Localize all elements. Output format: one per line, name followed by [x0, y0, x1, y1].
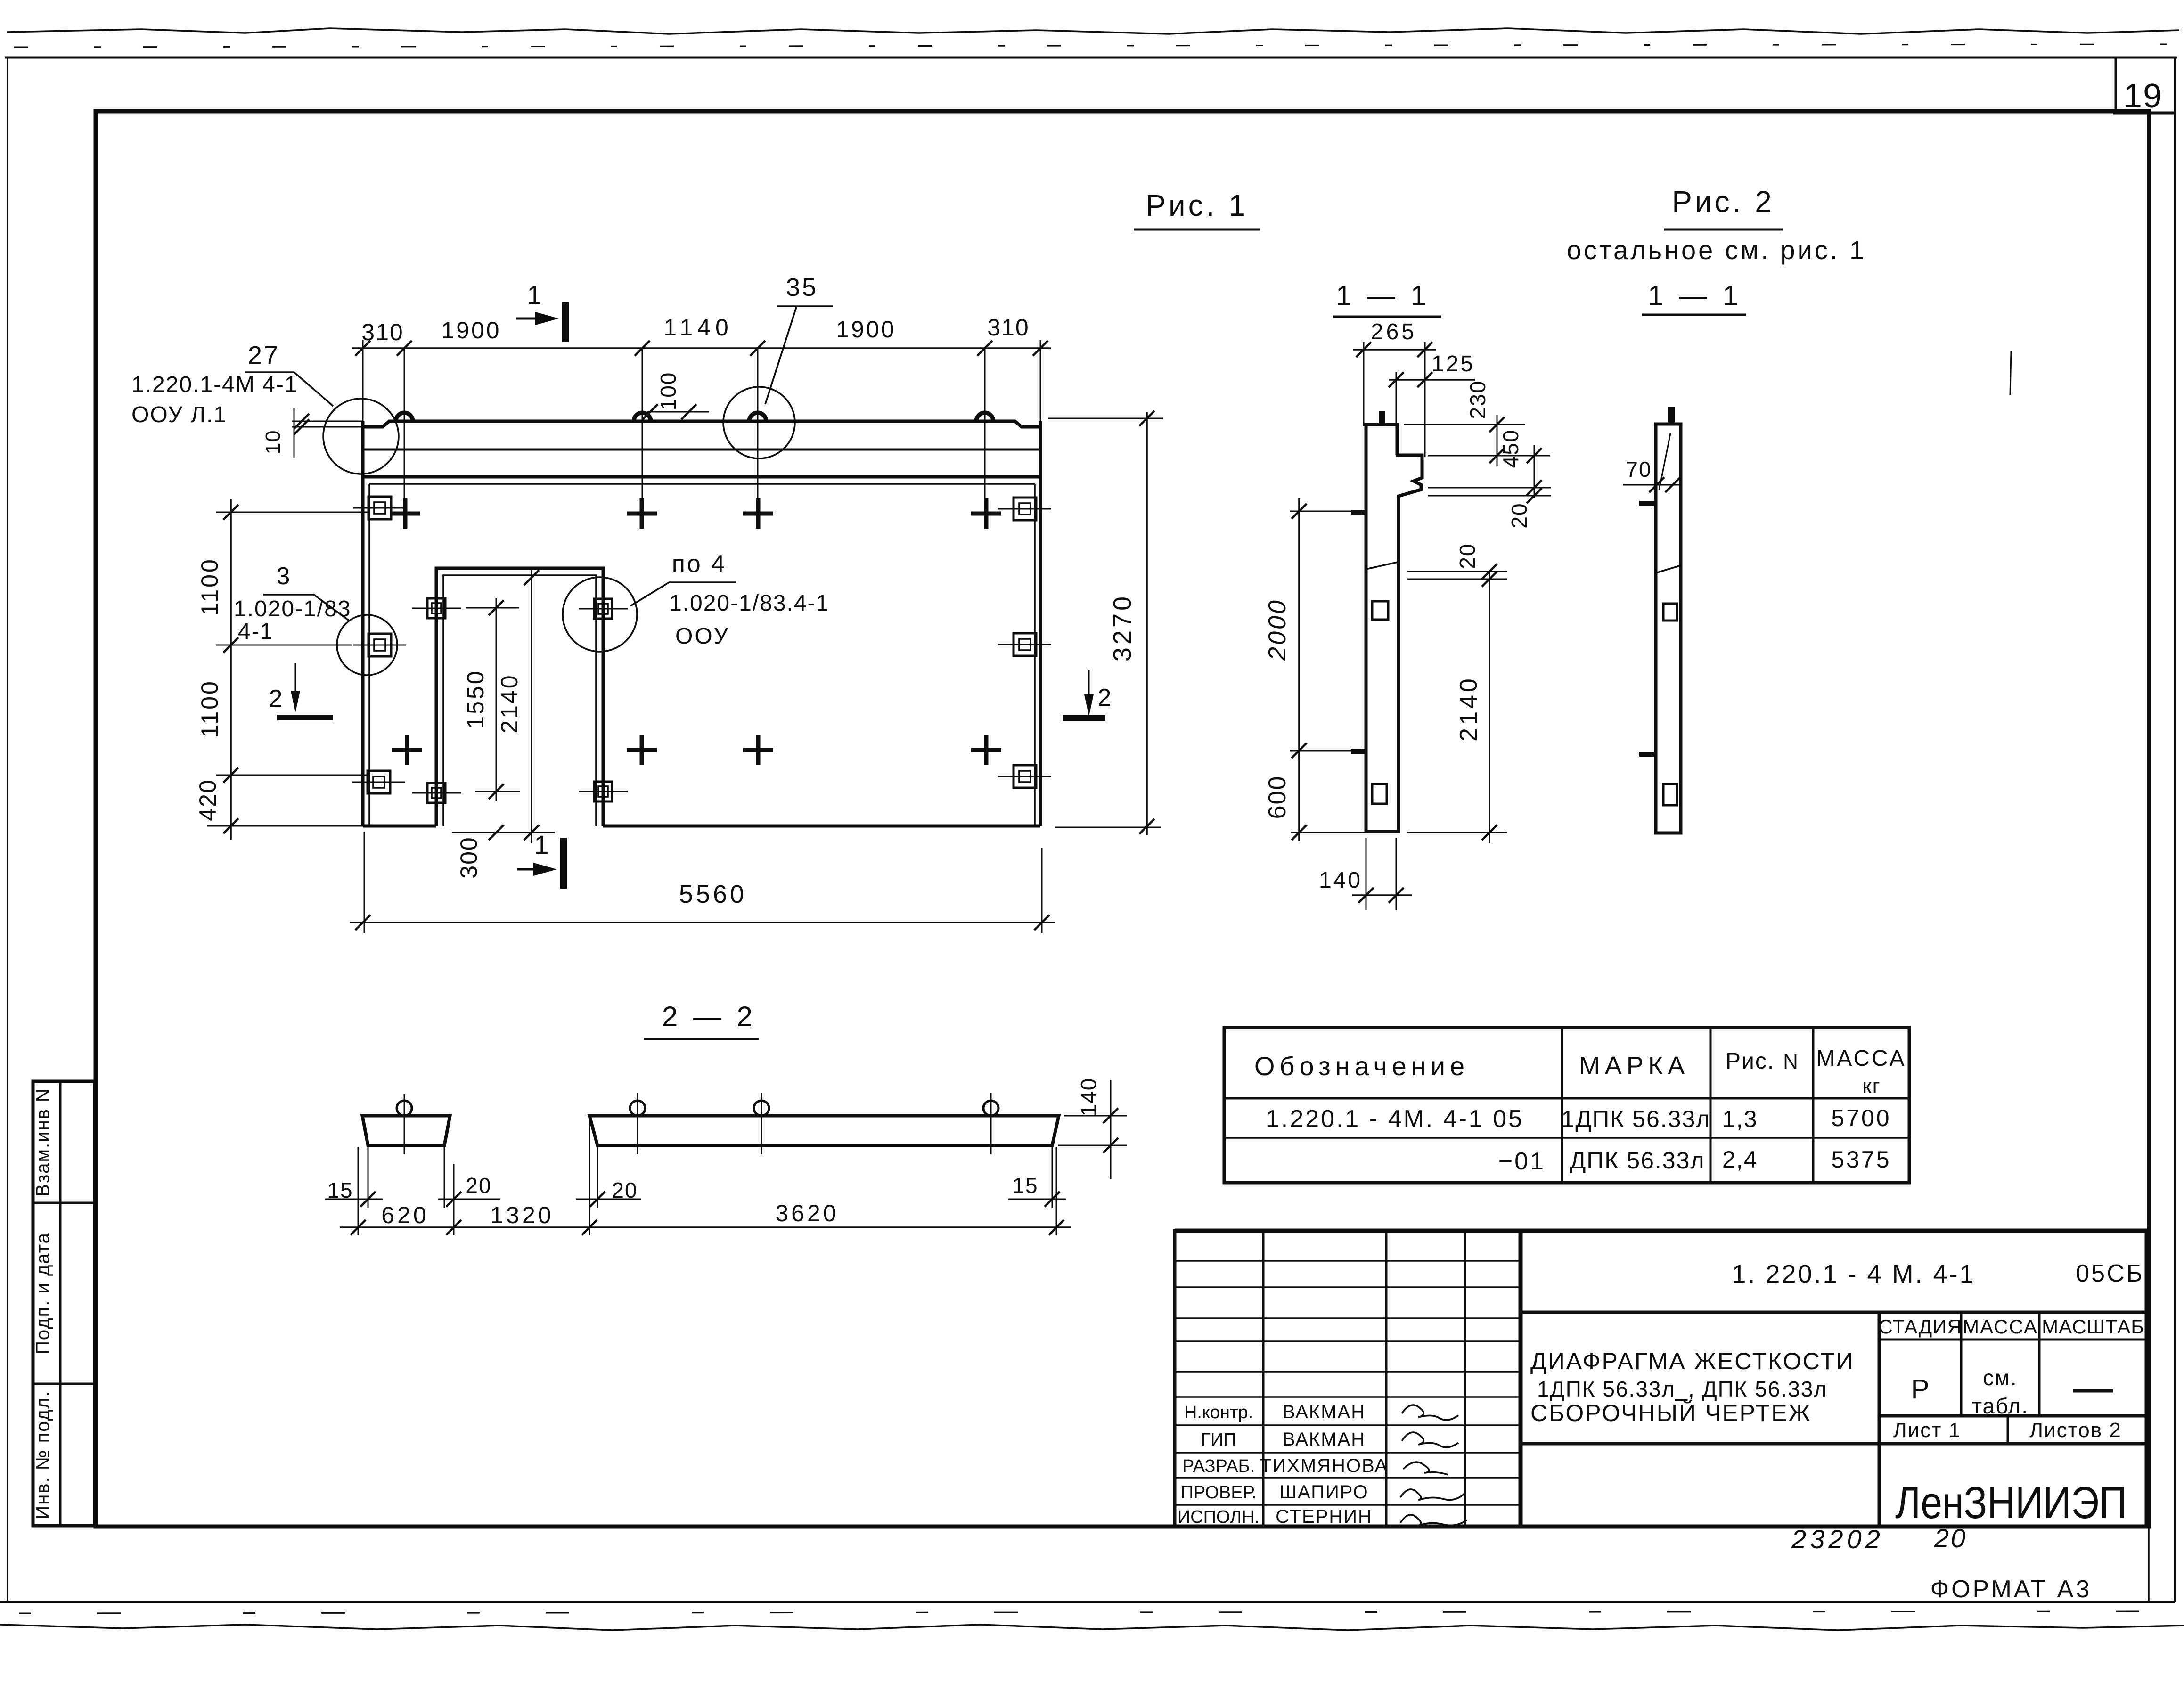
- centerline loop3: [757, 348, 759, 527]
- svg-text:1 — 1: 1 — 1: [1648, 280, 1742, 311]
- svg-text:620: 620: [381, 1202, 429, 1228]
- centerline loop4: [984, 348, 986, 527]
- centerline loop2: [642, 348, 643, 527]
- door dim 2140 line: [531, 570, 532, 843]
- grid hline 3136: [1175, 1477, 1521, 1479]
- title block left grid: [1175, 1231, 1521, 1527]
- callout 35 leader: [765, 307, 796, 404]
- section mark 2 right: arrow line: [1088, 670, 1090, 707]
- svg-text:3620: 3620: [775, 1200, 839, 1226]
- svg-text:2000: 2000: [1264, 598, 1291, 661]
- plus row1 b: [627, 512, 657, 516]
- svg-text:300: 300: [456, 836, 482, 878]
- dim 140: [1352, 894, 1412, 896]
- svg-text:1.220.1-4М 4-1: 1.220.1-4М 4-1: [131, 372, 298, 397]
- lifting loop 4: [976, 413, 993, 421]
- plus row2 b: [627, 748, 657, 752]
- svg-text:2: 2: [269, 685, 283, 712]
- dim 100 line: [647, 411, 709, 413]
- svg-text:ШАПИРО: ШАПИРО: [1279, 1482, 1368, 1503]
- svg-text:20: 20: [1934, 1523, 1967, 1553]
- door jamb anchor lower right: [594, 782, 612, 801]
- door opening outer contour: [436, 568, 603, 826]
- left dim line (1100/1100/420): [230, 499, 232, 840]
- grid hline 2676: [1175, 1260, 1521, 1262]
- designation cell line: [1521, 1311, 2147, 1314]
- svg-text:ЛенЗНИИЭП: ЛенЗНИИЭП: [1895, 1478, 2127, 1528]
- section pin stub: [1379, 411, 1385, 425]
- svg-text:ИСПОЛН.: ИСПОЛН.: [1178, 1507, 1260, 1527]
- svg-text:140: 140: [1076, 1078, 1101, 1117]
- main drawing frame: [96, 111, 2149, 1527]
- svg-text:РАЗРАБ.: РАЗРАБ.: [1182, 1456, 1255, 1476]
- panel bottom left segment: [363, 825, 436, 828]
- stadia massa masshtab header: [1879, 1339, 2147, 1341]
- section mark 1 bottom: arrow: [517, 868, 550, 871]
- plus row2 c: [743, 748, 773, 752]
- svg-text:ООУ Л.1: ООУ Л.1: [131, 402, 227, 427]
- dim 20 mid: [576, 1199, 641, 1200]
- svg-text:1: 1: [527, 280, 541, 310]
- bottom scattered dashes: [19, 1611, 2168, 1613]
- small collar loop: [397, 1101, 412, 1116]
- section mark 2 right: bar: [1063, 715, 1105, 721]
- svg-text:Листов 2: Листов 2: [2029, 1419, 2122, 1442]
- door jamb anchor upper left: [427, 598, 445, 618]
- dim 600: [1298, 751, 1300, 841]
- section2 stub upper: [1639, 501, 1656, 506]
- svg-text:см.: см.: [1983, 1365, 2017, 1390]
- grid hline 3083: [1175, 1452, 1521, 1454]
- signature 1: [1402, 1405, 1458, 1420]
- svg-text:1.020-1/83: 1.020-1/83: [234, 596, 352, 621]
- ext line y1645: [216, 775, 368, 776]
- bottom right verticals: [2148, 1527, 2150, 1602]
- ext verticals 2-2: [358, 1147, 359, 1235]
- section profile fig1: [1366, 425, 1422, 832]
- dim 140 collar: [1110, 1080, 1112, 1179]
- svg-text:23202: 23202: [1791, 1524, 1884, 1554]
- svg-text:ТИХМЯНОВА: ТИХМЯНОВА: [1260, 1455, 1388, 1476]
- door jamb anchor lower left: [427, 783, 445, 803]
- svg-text:5560: 5560: [679, 880, 747, 908]
- svg-text:1,3: 1,3: [1722, 1106, 1758, 1132]
- dim 20 top: [1527, 488, 1542, 503]
- ext line y1369: [216, 645, 352, 646]
- ext line right edge up: [1040, 340, 1041, 421]
- centerline loop1: [404, 348, 405, 527]
- right edge anchor 1: [1014, 498, 1036, 520]
- left edge anchor 3: [368, 771, 390, 793]
- svg-text:кг: кг: [1862, 1075, 1881, 1098]
- page number box: [2116, 57, 2175, 113]
- panel right edge: [1039, 421, 1042, 826]
- large collar loop 3: [983, 1101, 998, 1116]
- grid hline 3025: [1175, 1424, 1521, 1426]
- top dimension line: [352, 347, 1051, 349]
- svg-text:ВАКМАН: ВАКМАН: [1283, 1429, 1366, 1450]
- section2 stub lower: [1639, 752, 1656, 757]
- bottom dim 5560 line: [350, 922, 1055, 923]
- svg-text:Н.контр.: Н.контр.: [1184, 1403, 1253, 1422]
- dim 125: [1389, 379, 1475, 381]
- svg-text:1100: 1100: [196, 557, 223, 616]
- svg-text:420: 420: [195, 779, 221, 821]
- ext line y1087: [216, 512, 368, 513]
- svg-text:05СБ: 05СБ: [2076, 1260, 2144, 1287]
- signature 3: [1403, 1462, 1448, 1475]
- dim 230: [1497, 415, 1498, 466]
- svg-text:1320: 1320: [490, 1202, 554, 1228]
- svg-text:по 4: по 4: [672, 550, 727, 578]
- section mark 1 top: bar: [562, 302, 569, 342]
- svg-text:600: 600: [1264, 776, 1291, 819]
- svg-text:15: 15: [1012, 1173, 1038, 1198]
- svg-text:1ДПК 56.33л: 1ДПК 56.33л: [1562, 1106, 1711, 1132]
- right edge anchor 3: [1014, 765, 1036, 788]
- svg-text:2 — 2: 2 — 2: [662, 1001, 756, 1032]
- lifting loop 2: [634, 413, 651, 421]
- left edge anchor 2: [368, 634, 391, 656]
- dim 15 left: [325, 1199, 383, 1200]
- svg-text:остальное см. рис. 1: остальное см. рис. 1: [1567, 235, 1866, 265]
- tick left dim at 1645: [223, 768, 238, 783]
- panel inner contour left: [368, 484, 370, 825]
- door dim ext y1767: [452, 832, 555, 833]
- svg-text:265: 265: [1371, 319, 1417, 344]
- right dim 3270 line: [1146, 412, 1148, 835]
- ext right bottom corner: [1041, 848, 1043, 933]
- signature 2: [1402, 1432, 1458, 1447]
- svg-text:−01: −01: [1498, 1148, 1546, 1175]
- title block top line: [1175, 1229, 2147, 1233]
- section mark 2 left: bar: [277, 715, 333, 720]
- top border line: [5, 57, 2177, 59]
- door dim ext y1680: [475, 791, 520, 792]
- svg-text:ООУ: ООУ: [675, 624, 730, 649]
- tick top dim at 858: [397, 341, 412, 356]
- svg-text:Р: Р: [1911, 1374, 1930, 1405]
- svg-text:20: 20: [466, 1173, 491, 1198]
- door dim 1550 line: [496, 598, 497, 801]
- svg-text:Подп. и дата: Подп. и дата: [33, 1232, 53, 1355]
- callout circle left anchor2: [337, 615, 397, 675]
- left edge anchor 1: [368, 497, 391, 519]
- svg-text:МАСШТАБ: МАСШТАБ: [2042, 1315, 2144, 1338]
- svg-text:3: 3: [277, 563, 290, 590]
- section2 hole 1: [1663, 604, 1677, 621]
- svg-text:Рис. 1: Рис. 1: [1145, 188, 1248, 222]
- svg-text:N: N: [1783, 1050, 1798, 1073]
- tick left dim at 1369: [223, 637, 238, 653]
- svg-text:1.220.1 - 4М. 4-1 05: 1.220.1 - 4М. 4-1 05: [1266, 1105, 1524, 1133]
- svg-text:450: 450: [1498, 429, 1523, 468]
- bottom dim line 2-2: [340, 1226, 1071, 1228]
- svg-text:ВАКМАН: ВАКМАН: [1283, 1402, 1366, 1422]
- svg-text:70: 70: [1626, 457, 1652, 482]
- grid hline 2732: [1175, 1286, 1521, 1288]
- large collar piece: [589, 1116, 1059, 1145]
- svg-text:1. 220.1 - 4 М. 4-1: 1. 220.1 - 4 М. 4-1: [1732, 1260, 1975, 1288]
- svg-text:310: 310: [987, 314, 1029, 341]
- callout circle at loop 3: [723, 387, 795, 458]
- section stub left upper: [1351, 510, 1366, 515]
- tick top dim at 2090: [977, 341, 992, 356]
- beam bottom line: [363, 475, 1040, 479]
- large collar loop 1: [630, 1101, 645, 1116]
- spec table outer: [1224, 1028, 1909, 1183]
- grid hline 2798: [1175, 1317, 1521, 1319]
- door opening inner contour: [443, 575, 596, 826]
- svg-text:ПРОВЕР.: ПРОВЕР.: [1181, 1483, 1257, 1503]
- callout circle door jamb: [563, 577, 637, 652]
- dim 450: [1534, 445, 1535, 498]
- svg-text:10: 10: [262, 430, 285, 455]
- signature 5: [1400, 1515, 1467, 1526]
- svg-text:5375: 5375: [1831, 1146, 1891, 1173]
- dim 265: [1353, 349, 1436, 351]
- bottom border line: [0, 1601, 2175, 1603]
- svg-text:Обозначение: Обозначение: [1254, 1051, 1469, 1081]
- svg-text:1100: 1100: [196, 679, 223, 738]
- dim 20 mid: [1407, 571, 1507, 572]
- tick top dim at 1363: [635, 341, 650, 356]
- svg-text:20: 20: [1507, 502, 1531, 528]
- door jamb anchor upper right: [594, 599, 612, 619]
- panel body inner contour top: [369, 483, 1035, 485]
- svg-text:Лист 1: Лист 1: [1893, 1419, 1961, 1442]
- masshtab dash: [2073, 1389, 2113, 1393]
- svg-text:20: 20: [1455, 543, 1480, 569]
- tick top dim at 2208: [1033, 341, 1048, 356]
- svg-text:27: 27: [248, 341, 280, 369]
- svg-text:ДПК 56.33л: ДПК 56.33л: [1570, 1147, 1705, 1174]
- svg-text:СТАДИЯ: СТАДИЯ: [1878, 1315, 1962, 1338]
- svg-text:3270: 3270: [1108, 594, 1137, 662]
- grid hline 3194: [1175, 1504, 1521, 1506]
- svg-text:1 — 1: 1 — 1: [1336, 280, 1430, 311]
- large collar loop 2: [754, 1101, 769, 1116]
- door dim ext y1290: [466, 607, 519, 609]
- svg-text:310: 310: [361, 319, 403, 345]
- callout circle top-left corner: [323, 399, 399, 474]
- svg-text:35: 35: [786, 273, 818, 302]
- svg-text:2140: 2140: [1455, 676, 1482, 742]
- plus row1 a: [390, 512, 420, 516]
- svg-text:ГИП: ГИП: [1201, 1430, 1236, 1450]
- section stub left lower: [1351, 749, 1366, 754]
- panel bottom right segment: [603, 825, 1040, 828]
- svg-text:1: 1: [534, 830, 548, 859]
- torn paper bottom edge: [0, 1625, 2184, 1630]
- svg-text:МАССА: МАССА: [1816, 1046, 1906, 1071]
- dim 20 left: [438, 1199, 500, 1200]
- svg-text:20: 20: [612, 1178, 638, 1202]
- plus row1 d: [971, 512, 1001, 516]
- section break line: [1366, 562, 1398, 569]
- page box bottom thick segment: [2113, 112, 2175, 115]
- svg-text:125: 125: [1431, 351, 1475, 376]
- svg-text:1900: 1900: [836, 316, 896, 343]
- dim 2000: [1298, 498, 1300, 760]
- svg-text:1ДПК 56.33л_, ДПК 56.33л: 1ДПК 56.33л_, ДПК 56.33л: [1537, 1377, 1827, 1401]
- ext line bottom left: [207, 825, 363, 827]
- svg-text:Рис. 2: Рис. 2: [1672, 185, 1775, 219]
- svg-text:15: 15: [327, 1178, 353, 1202]
- svg-text:МАССА: МАССА: [1963, 1315, 2038, 1338]
- svg-text:Взам.инв N: Взам.инв N: [33, 1087, 53, 1197]
- svg-text:Рис.: Рис.: [1726, 1049, 1775, 1074]
- name cell divider: [1878, 1312, 1881, 1527]
- panel top edge with end steps: [363, 421, 1040, 427]
- grid hline 2911: [1175, 1371, 1521, 1373]
- svg-text:СТЕРНИН: СТЕРНИН: [1276, 1506, 1373, 1527]
- dim 15 right: [1008, 1199, 1066, 1200]
- svg-text:2140: 2140: [496, 673, 523, 733]
- section profile fig2: [1656, 424, 1681, 833]
- svg-text:ДИАФРАГМА ЖЕСТКОСТИ: ДИАФРАГМА ЖЕСТКОСТИ: [1530, 1348, 1855, 1374]
- svg-text:4-1: 4-1: [238, 619, 273, 644]
- section mark 1 bottom: bar: [560, 838, 567, 889]
- left outer border: [7, 57, 8, 1602]
- plus row2 d: [971, 748, 1001, 752]
- title block right outer: [1521, 1231, 2147, 1527]
- section2 hole 2: [1663, 784, 1677, 805]
- svg-text:5700: 5700: [1831, 1105, 1891, 1131]
- ext left bottom corner: [364, 832, 365, 933]
- dim 10 step: ext lines: [292, 421, 363, 422]
- svg-text:МАРКА: МАРКА: [1579, 1052, 1690, 1080]
- svg-text:140: 140: [1319, 868, 1362, 893]
- svg-text:1140: 1140: [663, 314, 733, 341]
- ext top right: [1048, 418, 1163, 419]
- svg-text:ФОРМАТ А3: ФОРМАТ А3: [1930, 1576, 2092, 1603]
- right outer border: [2174, 57, 2176, 1602]
- right edge anchor 2: [1014, 633, 1036, 656]
- tick left dim at 1087: [223, 505, 238, 520]
- ext bottom right: [1055, 827, 1161, 828]
- ext line left edge up: [362, 340, 364, 421]
- svg-text:230: 230: [1465, 380, 1490, 419]
- section mark 1 top: arrow: [516, 318, 552, 320]
- dim 70: [1623, 484, 1682, 486]
- lifting loop 3: [749, 413, 766, 421]
- svg-text:1900: 1900: [441, 317, 501, 343]
- signature 4: [1400, 1489, 1465, 1500]
- svg-text:2,4: 2,4: [1722, 1146, 1758, 1173]
- left margin stamp table: [33, 1081, 95, 1526]
- torn paper top edge: [7, 28, 2179, 34]
- top dashed scan line: [14, 44, 2168, 47]
- grid hline 2965: [1175, 1396, 1521, 1398]
- section2 pin stub: [1668, 407, 1675, 424]
- tick top dim at 770: [355, 341, 370, 356]
- section hole 1: [1372, 601, 1388, 620]
- panel left edge: [361, 421, 365, 826]
- lifting loop 1: [396, 413, 413, 421]
- panel inner contour right: [1034, 484, 1036, 825]
- section mark 2 left: arrow line: [295, 663, 296, 703]
- plus row1 c: [743, 512, 773, 516]
- svg-text:100: 100: [656, 372, 680, 411]
- section hole 2: [1372, 784, 1387, 804]
- section2 inner diagonal: [1659, 433, 1670, 490]
- grid hline 2847: [1175, 1340, 1521, 1342]
- beam mid line: [363, 449, 1040, 451]
- stray mark right of Ris.2: [2010, 351, 2011, 395]
- tick left dim at 1753: [223, 818, 238, 833]
- svg-text:1.020-1/83.4-1: 1.020-1/83.4-1: [669, 591, 829, 616]
- svg-text:1550: 1550: [462, 669, 489, 729]
- small collar piece: [362, 1116, 450, 1145]
- plus row2 a: [392, 748, 422, 752]
- svg-text:СБОРОЧНЫЙ ЧЕРТЕЖ: СБОРОЧНЫЙ ЧЕРТЕЖ: [1530, 1399, 1812, 1426]
- dim 2140 section: [1489, 572, 1490, 843]
- list row: [1879, 1414, 2147, 1418]
- svg-text:Инв. № подл.: Инв. № подл.: [33, 1390, 53, 1519]
- door dim 300 ticks: [489, 825, 504, 840]
- tick top dim at 1608: [750, 341, 765, 356]
- svg-text:2: 2: [1098, 684, 1112, 711]
- section2 break line: [1656, 565, 1681, 573]
